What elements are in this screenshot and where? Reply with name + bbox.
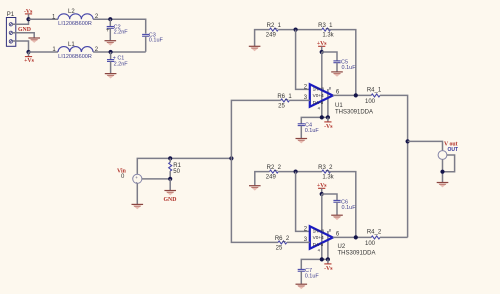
- power +Vs bottom-left: [24, 52, 34, 64]
- node dot +Vs upper: [320, 50, 324, 54]
- ground under C6: [331, 215, 343, 221]
- wire Vout tap: [408, 141, 443, 150]
- svg-text:1N+8: 1N+8: [313, 229, 325, 234]
- capacitor C6: [333, 199, 356, 215]
- node dot feedback: [354, 93, 358, 97]
- wire R2_2 to R3_2: [278, 171, 322, 173]
- svg-text:OUT: OUT: [448, 147, 459, 153]
- svg-text:THS3091DDA: THS3091DDA: [338, 250, 376, 256]
- resistor R6_2: [275, 236, 290, 251]
- svg-text:V0+4: V0+4: [313, 235, 324, 240]
- svg-text:L2: L2: [68, 9, 75, 15]
- node dot +Vs lower: [320, 192, 324, 196]
- wire to L1: [29, 51, 59, 53]
- ground under Vin: [132, 204, 144, 210]
- svg-text:LI1206B600R: LI1206B600R: [58, 54, 92, 60]
- ground under C2: [105, 40, 117, 46]
- svg-text:1N+8: 1N+8: [313, 87, 325, 92]
- svg-text:25: 25: [278, 103, 285, 109]
- wire R1 bottom to gnd: [169, 179, 171, 190]
- svg-text:-Vs: -Vs: [324, 124, 333, 130]
- svg-text:0.1uF: 0.1uF: [305, 128, 320, 134]
- resistor R2_2: [266, 165, 282, 181]
- wire supply rail to C7: [301, 259, 328, 269]
- svg-text:R2_2: R2_2: [267, 165, 282, 171]
- svg-text:GND: GND: [164, 197, 177, 203]
- node dot C2 tap: [108, 17, 112, 21]
- inductor L1: [52, 42, 98, 60]
- svg-text:50: 50: [173, 169, 180, 175]
- resistor R4_1: [365, 87, 382, 105]
- ground left of R2_1: [249, 46, 261, 52]
- svg-text:P1: P1: [7, 12, 15, 18]
- svg-text:R3_2: R3_2: [318, 165, 333, 171]
- wire trunk down to R6_2: [231, 158, 278, 242]
- svg-text:2.2nF: 2.2nF: [114, 61, 129, 67]
- svg-text:0.1uF: 0.1uF: [149, 38, 164, 44]
- node dot supply a: [320, 115, 324, 119]
- ground under C1: [105, 73, 117, 79]
- node dot Vout tap: [406, 139, 410, 143]
- capacitor C3: [142, 33, 163, 52]
- power -Vs top-left: [24, 9, 33, 19]
- wire output U2: [333, 236, 371, 238]
- wire pin3 stub: [13, 41, 29, 52]
- wire +Vs to C6: [322, 194, 337, 200]
- svg-text:R4_1: R4_1: [367, 87, 382, 93]
- wire gnd end to R2_2: [255, 172, 270, 186]
- resistor R4_2: [365, 229, 382, 247]
- wire supply rail to C4: [301, 117, 328, 123]
- ground under C4: [296, 138, 308, 144]
- resistor R3_2: [318, 165, 335, 180]
- power +Vs upper cell: [317, 41, 327, 52]
- resistor R2_1: [266, 23, 282, 38]
- svg-text:DA-5: DA-5: [313, 100, 324, 105]
- ground P1: [28, 37, 40, 43]
- svg-text:25: 25: [276, 245, 283, 251]
- wire Vin right to R1: [142, 178, 170, 180]
- svg-text:LI1206B600R: LI1206B600R: [58, 21, 92, 27]
- wire R4_1 to right trunk: [380, 95, 408, 237]
- capacitor C7: [298, 268, 320, 284]
- node dot input trunk: [229, 156, 233, 160]
- wire Vin top: [137, 158, 231, 174]
- ground under Vout: [437, 182, 449, 188]
- power +Vs lower cell: [317, 183, 327, 194]
- wire output U1: [333, 94, 371, 96]
- svg-text:U2: U2: [338, 244, 346, 250]
- wire R6_2 to pin3: [287, 241, 310, 243]
- capacitor C2: [106, 19, 128, 40]
- wire V+ supply vertical 2: [321, 194, 323, 259]
- voltage source Vin: [133, 174, 142, 185]
- wire Vout bottom: [442, 159, 444, 182]
- wire V+ supply vertical: [321, 52, 323, 117]
- capacitor C5: [333, 60, 356, 72]
- node dot Vout bottom: [440, 170, 444, 174]
- op-amp U2: [304, 226, 376, 256]
- resistor R6_1: [277, 94, 292, 109]
- node dot +Vs: [26, 50, 30, 54]
- node dot feedback 2: [354, 235, 358, 239]
- wire trunk up to R6_1: [231, 100, 280, 158]
- svg-text:0.1uF: 0.1uF: [342, 65, 357, 71]
- svg-text:V0+4: V0+4: [313, 93, 324, 98]
- svg-text:R2_1: R2_1: [267, 23, 282, 29]
- power -Vs lower cell: [324, 259, 333, 272]
- svg-text:100: 100: [365, 241, 376, 247]
- ground under R1: [164, 190, 176, 196]
- ground under C7: [296, 284, 308, 290]
- wire V- supply vertical 2: [327, 231, 329, 259]
- power -Vs upper cell: [324, 117, 333, 129]
- svg-text:R6_1: R6_1: [277, 94, 292, 100]
- source Vout: [438, 151, 447, 160]
- svg-text:1.3k: 1.3k: [322, 32, 334, 38]
- svg-text:+: +: [106, 28, 110, 34]
- resistor R3_1: [318, 23, 335, 38]
- svg-text:DA-5: DA-5: [313, 242, 324, 247]
- svg-text:L1: L1: [68, 42, 75, 48]
- svg-text:THS3091DDA: THS3091DDA: [335, 109, 373, 115]
- svg-text:1.3k: 1.3k: [322, 174, 334, 180]
- svg-text:GND: GND: [18, 27, 31, 33]
- ground left of R2_2: [249, 185, 261, 191]
- node dot supply 2a: [320, 257, 324, 261]
- capacitor C1: [107, 52, 128, 73]
- op-amp U1: [304, 84, 373, 115]
- wire inverting input: [296, 30, 310, 90]
- resistor R1: [169, 158, 182, 179]
- wire L1 to C3 branch: [93, 51, 146, 53]
- node dot R1 top: [168, 156, 172, 160]
- node dot supply 2b: [326, 257, 330, 261]
- node dot -Vs: [26, 17, 30, 21]
- wire R4_2 to right trunk: [380, 236, 408, 238]
- wire V- supply vertical: [327, 89, 329, 117]
- svg-text:+Vs: +Vs: [24, 58, 34, 64]
- node dot supply b: [326, 115, 330, 119]
- svg-text:0.1uF: 0.1uF: [342, 205, 357, 211]
- svg-text:249: 249: [266, 33, 277, 39]
- svg-text:249: 249: [266, 175, 277, 181]
- capacitor C4: [298, 123, 320, 139]
- wire gnd end to R2_1: [255, 30, 270, 46]
- ground under C5: [331, 71, 343, 77]
- wire inverting input 2: [296, 172, 310, 232]
- svg-text:-Vs: -Vs: [324, 266, 333, 272]
- wire R3_1 to feedback corner: [329, 30, 356, 96]
- svg-text:R4_2: R4_2: [367, 229, 382, 235]
- svg-text:U1: U1: [335, 103, 343, 109]
- wire L2 to C3 branch: [93, 19, 146, 33]
- node dot R1 bottom: [168, 177, 172, 181]
- inductor L2: [52, 9, 99, 27]
- node dot inverting net 2: [294, 170, 298, 174]
- wire R3_2 to feedback corner: [329, 172, 356, 238]
- wire pin2 GND stub: [13, 33, 35, 38]
- wire R2_1 to R3_1: [278, 29, 322, 31]
- wire +Vs to C5: [322, 52, 337, 61]
- node dot C1 tap: [109, 50, 113, 54]
- wire Vout loop: [443, 155, 455, 172]
- node dot inverting net: [294, 28, 298, 32]
- wire R6_1 to pin3: [289, 99, 309, 101]
- svg-text:R6_2: R6_2: [275, 236, 290, 242]
- svg-text:0.1uF: 0.1uF: [305, 273, 320, 279]
- connector P1: [6, 12, 15, 46]
- wire pin1 stub: [13, 19, 29, 24]
- svg-text:R3_1: R3_1: [318, 23, 333, 29]
- wire to L2: [29, 18, 59, 20]
- svg-text:100: 100: [365, 99, 376, 105]
- svg-text:2.2nF: 2.2nF: [114, 30, 129, 36]
- wire Vin bottom: [136, 183, 138, 204]
